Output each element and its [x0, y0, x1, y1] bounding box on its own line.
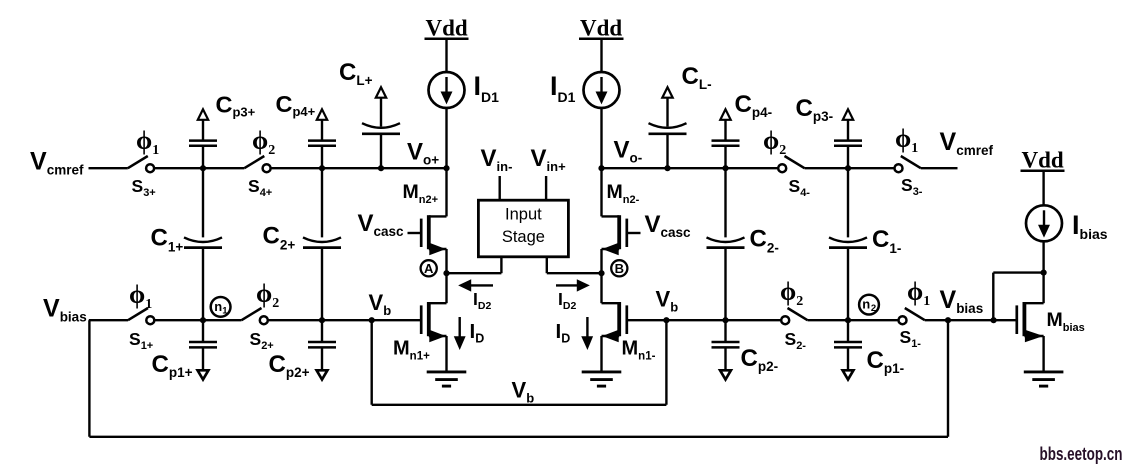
wire Vb loop [372, 320, 667, 405]
svg-text:Vdd: Vdd [426, 16, 468, 41]
label Cp4+ [276, 91, 316, 119]
node n2 dot [845, 317, 851, 323]
label S2- [785, 329, 807, 352]
node dot CL-/top-rail [664, 165, 670, 171]
capacitor CL- top terminal arrow [662, 87, 672, 126]
node dot Vb-left junction [369, 317, 375, 323]
capacitor C2+ [303, 237, 341, 247]
label Vb bottom [512, 378, 535, 406]
power Vdd left [425, 16, 469, 41]
label Cp2- [741, 345, 779, 374]
wire top rail to C2- [724, 168, 726, 237]
label Cp4- [735, 91, 773, 120]
label CL- [682, 63, 712, 92]
node dot Cp2-/bottom-rail [722, 317, 728, 323]
ground under Mn1+ [427, 372, 467, 386]
label Mn2- [607, 181, 640, 206]
wire bottom rail Mn1- gate to S2- circle [628, 319, 781, 321]
label C2- [750, 226, 779, 256]
power Vdd right [579, 16, 624, 41]
switch S2- [781, 308, 807, 324]
input stage box [478, 200, 568, 257]
label S4+ [248, 176, 272, 199]
transistor Mn1+ [421, 273, 446, 341]
transistor Mbias [1017, 302, 1044, 341]
capacitor CL- [649, 123, 687, 134]
switch S4+ [244, 156, 270, 172]
wire top rail S3+ to S4+ pivot [154, 167, 244, 169]
ground under Mn1- [582, 372, 622, 386]
svg-text:bbs.eetop.cn: bbs.eetop.cn [1040, 443, 1123, 464]
capacitor C1- [829, 237, 867, 247]
label Vo- [614, 137, 643, 166]
wire top rail to C1+ [202, 168, 204, 237]
label Mn2+ [403, 181, 439, 206]
svg-text:n: n [214, 299, 222, 314]
node dot Cp3-/top-rail [845, 165, 851, 171]
capacitor Cp2+ bottom terminal arrow [317, 347, 328, 379]
label Cp3+ [216, 92, 256, 120]
wire CL- to top rail [666, 134, 668, 168]
wire Cp4- to top rail [724, 146, 726, 168]
wire Mbias gate loop [993, 273, 1043, 321]
switch S3+ [128, 156, 154, 172]
svg-text:B: B [615, 261, 624, 276]
label Vbias left [43, 295, 87, 325]
capacitor Cp4- [712, 141, 740, 146]
label phi1 S1- [907, 277, 930, 309]
svg-text:Stage: Stage [502, 228, 545, 246]
capacitor Cp2+ [308, 342, 336, 347]
wire Ibias to Mbias drain [1042, 241, 1044, 303]
wire input stage to node A [447, 257, 502, 273]
transistor Mn2+ [408, 168, 447, 254]
label Vcasc right [645, 211, 692, 240]
node n2 label [859, 295, 879, 315]
wire C1- to bottom rail [847, 248, 849, 321]
wire C1+ to bottom rail [202, 248, 204, 321]
node dot Mbias gate loop junction [991, 317, 997, 323]
wire top rail left (Vcmref to S3+ pivot) [89, 167, 128, 169]
capacitor Cp4- top terminal arrow [720, 109, 730, 140]
current source Ibias [1026, 205, 1062, 241]
label phi1 S1+ [129, 280, 152, 312]
wire C2- to bottom rail [724, 248, 726, 321]
switch S4- [778, 156, 804, 172]
node dot Vo+ drain [443, 165, 449, 171]
power Vdd bias [1021, 148, 1065, 173]
label Vcmref left [30, 148, 84, 178]
wire Vbias loop [89, 320, 948, 437]
capacitor CL+ [362, 123, 400, 134]
wire bottom rail S1- pivot to Mbias gate [925, 319, 1016, 321]
ground under Mbias [1024, 372, 1064, 386]
switch S2+ [242, 308, 268, 324]
current arrow ID left [455, 317, 464, 348]
wire Mn1+ source to ground [445, 336, 447, 372]
wire bottom rail S2+ to Mn1+ gate [268, 319, 421, 321]
node n1 label [211, 297, 231, 317]
wire Cp4+ to top rail [321, 146, 323, 168]
label Vin- [481, 145, 513, 174]
label Vo+ [407, 139, 439, 168]
wire CL+ to top rail [380, 134, 382, 168]
label S1- [900, 327, 922, 350]
label Cp2+ [269, 351, 310, 380]
current source ID1 right [584, 72, 620, 108]
label Mn1+ [393, 338, 430, 363]
label Vb left [369, 290, 392, 318]
wire node n1 to Cp1+ [202, 320, 204, 342]
node dot Cp2+/bottom-rail [319, 317, 325, 323]
wire top rail S4+ to Mn2+ drain [271, 167, 447, 169]
svg-text:Vdd: Vdd [1022, 148, 1064, 173]
wire Mn2+ source to node A [445, 249, 447, 273]
current arrow ID right [583, 317, 592, 348]
label Mbias [1047, 309, 1085, 334]
current arrow ID2 right [556, 281, 588, 290]
node dot Vbias-right junction [945, 317, 951, 323]
wire Mn1- source to ground [600, 336, 602, 372]
label Vbias right [940, 286, 984, 316]
label Vin+ [531, 145, 567, 174]
wire Mbias source to ground [1042, 336, 1044, 372]
wire node n2 to Cp1- [847, 320, 849, 342]
label Vcasc left [358, 210, 405, 239]
wire Vdd to Ibias [1042, 171, 1044, 206]
transistor Mn2- [602, 168, 641, 254]
wire bottom rail to Cp2- [724, 320, 726, 342]
svg-text:Vdd: Vdd [580, 16, 622, 41]
capacitor C1+ [184, 237, 222, 247]
wire Vbias stub to S1+ pivot [89, 319, 128, 321]
wire top rail to C2+ [321, 168, 323, 237]
svg-text:Input: Input [505, 206, 542, 224]
capacitor Cp1+ bottom terminal arrow [198, 347, 209, 379]
wire top rail S3- pivot to Vcmref [921, 167, 958, 169]
current arrow ID2 left [461, 281, 494, 290]
wire ID1 to Vo+ rail [445, 108, 447, 168]
capacitor Cp2- [712, 342, 740, 347]
label Cp1+ [152, 351, 193, 380]
label Mn1- [622, 338, 656, 363]
node A [421, 260, 437, 276]
label phi2 S2+ [256, 279, 279, 311]
label ID right [556, 320, 571, 346]
watermark bbs.eetop.cn [1040, 443, 1123, 464]
label phi2 S2- [780, 277, 803, 309]
svg-text:n: n [862, 296, 870, 311]
node dot Cp3+/top-rail [200, 165, 206, 171]
wire top rail Mn2- drain to S4- circle [602, 167, 779, 169]
label C1+ [151, 225, 184, 255]
wire Vin- lead [499, 176, 501, 200]
label CL+ [339, 59, 373, 88]
capacitor Cp2- bottom terminal arrow [720, 347, 731, 379]
label phi2 S4- [763, 126, 786, 158]
label ID left [470, 320, 485, 346]
capacitor CL+ top terminal arrow [376, 87, 386, 126]
capacitor Cp1- [834, 342, 862, 347]
node dot CL+/top-rail [378, 165, 384, 171]
capacitor Cp1- bottom terminal arrow [843, 347, 854, 379]
wire bottom rail S2- to S1- circle [808, 319, 900, 321]
capacitor Cp3+ [189, 141, 217, 146]
capacitor C2- [707, 237, 745, 247]
svg-text:1: 1 [222, 306, 228, 317]
label ID1 left [474, 71, 500, 105]
label S2+ [250, 329, 274, 352]
node dot Vb-right junction [663, 317, 669, 323]
capacitor Cp3+ top terminal arrow [198, 109, 208, 140]
capacitor Cp4+ top terminal arrow [317, 109, 327, 140]
label ID2 right [558, 289, 576, 312]
label Cp1- [867, 347, 905, 376]
capacitor Cp1+ [189, 342, 217, 347]
label S4- [789, 176, 811, 199]
wire Cp3- to top rail [847, 146, 849, 168]
node dot Cp4-/top-rail [722, 165, 728, 171]
wire Vdd to ID1 left [445, 39, 447, 72]
capacitor Cp3- top terminal arrow [843, 109, 853, 140]
current source ID1 left [429, 72, 465, 108]
label ID1 right [550, 71, 576, 105]
wire top rail S4- to S3- circle [805, 167, 895, 169]
switch S1- [899, 308, 925, 324]
wire ID1 to Vo- rail [600, 108, 602, 168]
switch S3- [895, 156, 921, 172]
label Cp3- [796, 95, 834, 124]
label Vb right [656, 287, 679, 315]
node dot Mbias drain/gate loop [1041, 270, 1047, 276]
node dot Vo- drain [598, 165, 604, 171]
label S3+ [132, 176, 156, 199]
wire Vdd to ID1 right [600, 39, 602, 72]
label phi1 S3+ [136, 126, 159, 158]
capacitor Cp4+ [308, 141, 336, 146]
label Vcmref right [940, 128, 994, 158]
wire Vin+ lead [545, 176, 547, 200]
node n1 dot [200, 317, 206, 323]
label C1- [872, 226, 901, 256]
wire C2+ to bottom rail [321, 248, 323, 321]
label C2+ [263, 223, 296, 253]
wire bottom rail to Cp2+ [321, 320, 323, 342]
wire top rail to C1- [847, 168, 849, 237]
node B dot [598, 270, 604, 276]
node B [611, 260, 627, 276]
node dot Cp4+/top-rail [319, 165, 325, 171]
label phi1 S3- [895, 124, 918, 156]
wire Cp3+ to top rail [202, 146, 204, 168]
transistor Mn1- [602, 273, 628, 341]
label Ibias [1072, 210, 1108, 242]
wire Mn2- source to node B [600, 249, 602, 273]
wire input stage to node B [547, 257, 602, 273]
label phi2 S4+ [252, 126, 275, 158]
svg-text:A: A [424, 261, 434, 276]
label S1+ [129, 329, 153, 352]
node A dot [443, 270, 449, 276]
label ID2 left [473, 289, 491, 312]
capacitor Cp3- [834, 141, 862, 146]
label S3- [901, 175, 923, 198]
svg-text:2: 2 [871, 303, 876, 314]
switch S1+ [128, 308, 154, 324]
wire bottom rail S1+ to S2+ pivot [155, 319, 242, 321]
